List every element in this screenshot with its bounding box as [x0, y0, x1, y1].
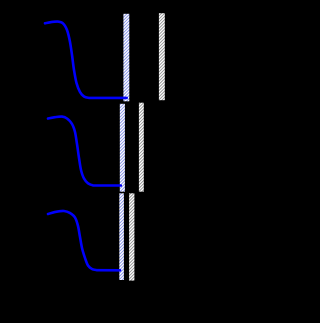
panel 2 barrier B1 (blue hatched)	[120, 104, 125, 192]
panel 1 barrier B1 (blue hatched)	[123, 14, 129, 102]
panel 3 band-edge curve	[48, 211, 120, 270]
panel 1 band-edge curve	[45, 22, 127, 98]
panel 3 barrier B1 (blue hatched)	[119, 193, 124, 280]
panel 3 barrier B2 (gray hatched)	[129, 193, 134, 280]
panel 2 barrier B2 (gray hatched)	[139, 103, 144, 192]
panel 2 band-edge curve	[48, 117, 121, 186]
panel 1 barrier B2 (gray hatched)	[159, 13, 165, 100]
